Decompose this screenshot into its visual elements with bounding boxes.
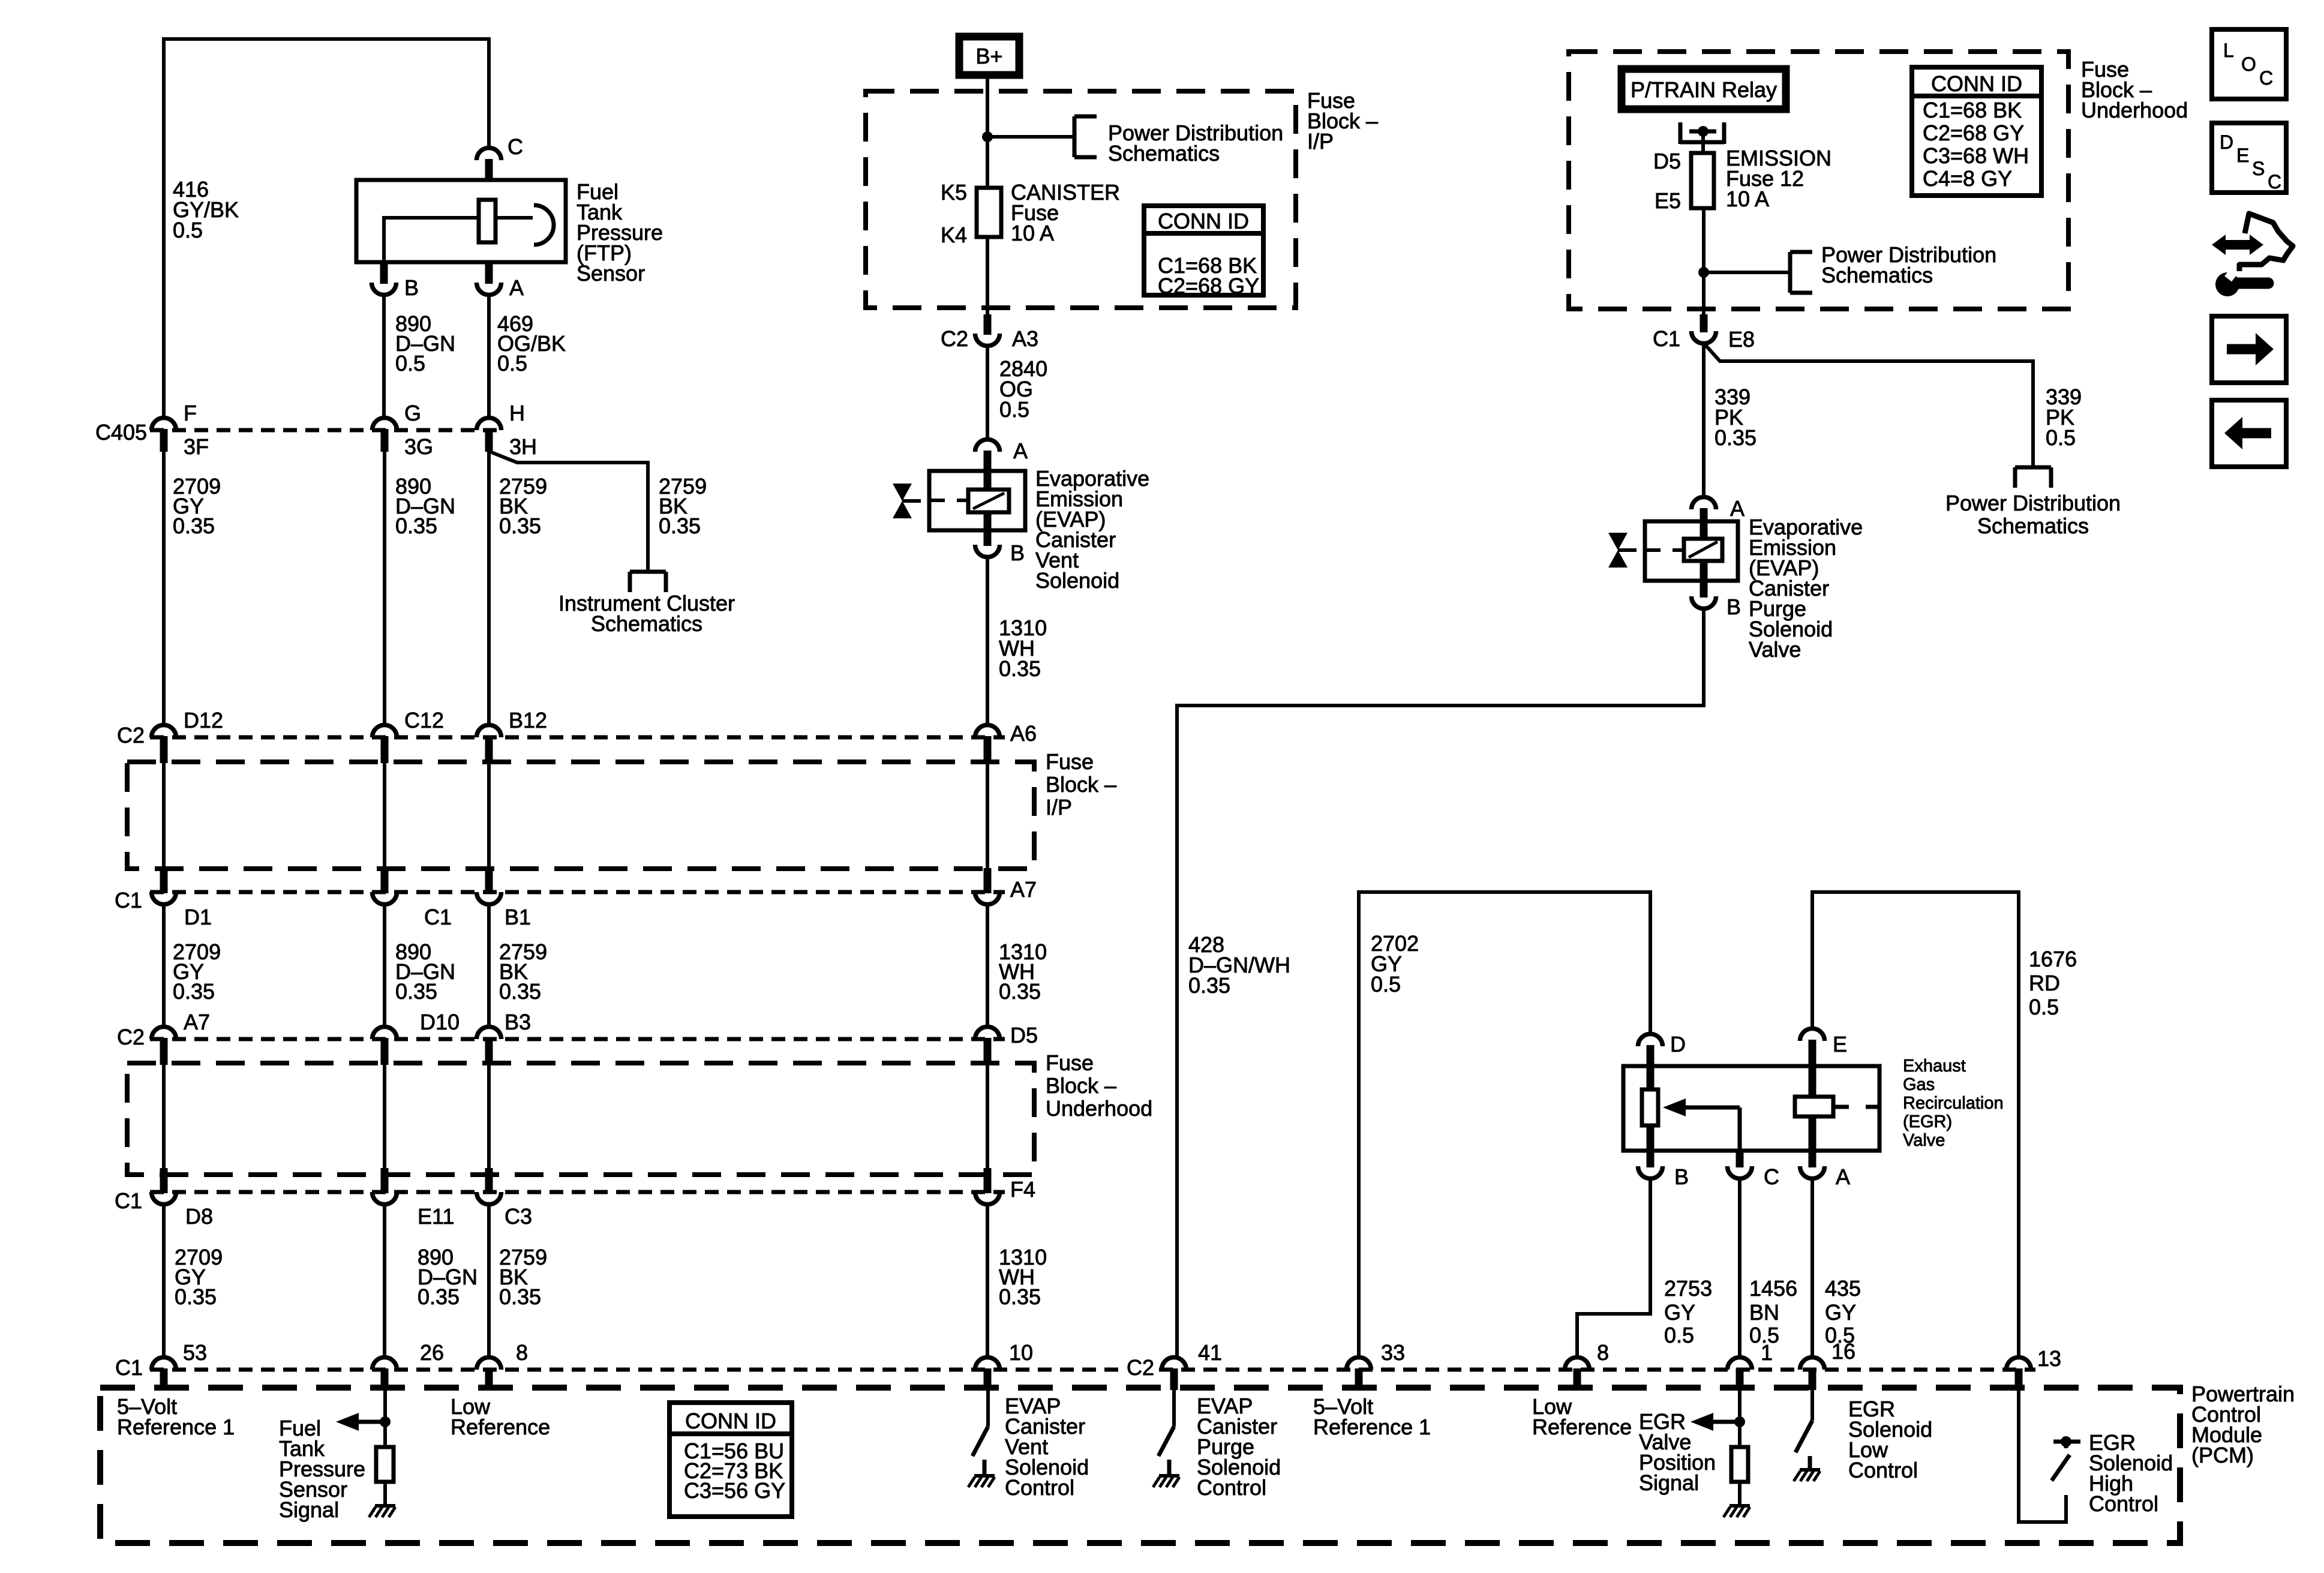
- ground EGR low driver: [1800, 1468, 1820, 1472]
- svg-text:435: 435: [1825, 1276, 1861, 1301]
- EVAP vent driver switch: [972, 1427, 988, 1456]
- connector PCM pin 13: [2007, 1358, 2031, 1370]
- svg-text:3H: 3H: [509, 434, 537, 459]
- connector C1/E11: [373, 1192, 397, 1205]
- connector C405 pin G: [373, 418, 397, 431]
- svg-text:F4: F4: [1010, 1177, 1035, 1202]
- svg-text:F: F: [184, 401, 197, 425]
- svg-text:Schematics: Schematics: [591, 611, 702, 636]
- connector pin D EGR: [1638, 1034, 1663, 1046]
- wire 2702 GY loop: [1359, 892, 1650, 1356]
- icon wrench tool: [2215, 272, 2239, 296]
- connector PCM pin 41: [1162, 1358, 1187, 1370]
- connector C2/D12: [152, 725, 176, 738]
- icon wrench part outline: [2239, 214, 2293, 271]
- svg-text:0.35: 0.35: [395, 514, 437, 538]
- svg-text:0.5: 0.5: [173, 218, 203, 242]
- svg-text:0.35: 0.35: [175, 1284, 217, 1309]
- connector C1/C1: [373, 892, 397, 905]
- svg-text:0.5: 0.5: [999, 397, 1029, 422]
- connector pin A EGR: [1800, 1166, 1825, 1178]
- connector pin A purge: [1692, 497, 1716, 509]
- EGR valve box: [1623, 1066, 1879, 1151]
- svg-text:0.5: 0.5: [1371, 972, 1401, 996]
- ground EGR position: [1730, 1504, 1750, 1508]
- connector PCM pin 8R: [1565, 1358, 1590, 1370]
- svg-text:C1: C1: [115, 888, 142, 912]
- vent solenoid coil: [968, 490, 1009, 512]
- resistor EGR position: [1731, 1447, 1748, 1482]
- EGR high driver switch blade: [2052, 1455, 2070, 1481]
- connector pin A FTP: [477, 283, 502, 295]
- svg-text:Schematics: Schematics: [1821, 263, 1933, 287]
- wire branch to power distribution: [987, 135, 1074, 139]
- EGR position arrow: [1691, 1413, 1713, 1431]
- wire col3 2759: [487, 451, 491, 725]
- connector C2/A3: [975, 334, 1000, 346]
- svg-text:C4=8 GY: C4=8 GY: [1923, 166, 2012, 191]
- svg-text:10 A: 10 A: [1011, 221, 1054, 245]
- svg-text:E8: E8: [1728, 327, 1755, 352]
- wire vent B down: [986, 557, 989, 725]
- connector row dashed line y1732: [150, 1037, 1005, 1041]
- svg-text:C1=68 BK: C1=68 BK: [1923, 98, 2022, 122]
- connector C2/A6: [975, 725, 1000, 738]
- wire A3 to vent A: [986, 346, 989, 440]
- svg-text:3G: 3G: [404, 434, 433, 459]
- P/TRAIN relay box: [1622, 69, 1786, 109]
- EGR wiper arrow: [1663, 1098, 1686, 1116]
- wire col4 band2: [986, 905, 989, 1026]
- svg-text:0.5: 0.5: [1664, 1323, 1694, 1347]
- svg-text:E11: E11: [418, 1204, 454, 1229]
- fuel tank pressure sensor FTP box: [356, 180, 566, 262]
- svg-text:D5: D5: [1010, 1023, 1038, 1047]
- connector row dashed line y1487: [150, 890, 1005, 894]
- off-page bracket instrument cluster: [630, 570, 666, 574]
- conn id table underhood: [1912, 67, 2041, 196]
- svg-text:0.35: 0.35: [1188, 973, 1230, 998]
- resistor FTP element: [479, 200, 496, 242]
- EGR high driver contact: [2061, 1436, 2071, 1447]
- svg-text:10: 10: [1009, 1340, 1033, 1365]
- connector PCM pin 1: [1728, 1358, 1752, 1370]
- EGR solenoid coil: [1795, 1097, 1833, 1116]
- connector C1/D1: [152, 892, 176, 905]
- wire EGR resistor to ground: [1738, 1482, 1742, 1506]
- wire branch power dist right: [1704, 271, 1790, 274]
- svg-text:E: E: [1833, 1032, 1847, 1056]
- svg-text:0.35: 0.35: [999, 656, 1041, 681]
- svg-text:0.35: 0.35: [173, 979, 215, 1004]
- icon left arrow box: [2212, 400, 2286, 467]
- vent solenoid dashed actuator line: [929, 499, 968, 502]
- wire col4 band3: [986, 1205, 989, 1356]
- connector PCM pin 8L: [477, 1358, 502, 1370]
- svg-text:D12: D12: [184, 708, 223, 733]
- wire EGR low driver: [1810, 1389, 1814, 1421]
- svg-text:0.35: 0.35: [418, 1284, 460, 1309]
- EVAP vent driver ground stub: [983, 1460, 987, 1476]
- svg-text:Block –: Block –: [1046, 772, 1116, 797]
- EGR position sensor potentiometer: [1642, 1089, 1658, 1125]
- connector PCM pin 26: [373, 1358, 397, 1370]
- svg-text:0.35: 0.35: [999, 1284, 1041, 1309]
- connector C1/C3: [477, 1192, 502, 1205]
- wire top-left loop: [164, 39, 489, 418]
- svg-text:C: C: [1764, 1164, 1779, 1189]
- svg-text:Sensor: Sensor: [577, 261, 645, 286]
- svg-text:D: D: [1670, 1032, 1686, 1056]
- wire col4 through UH block: [986, 1065, 989, 1169]
- svg-text:Signal: Signal: [279, 1497, 339, 1522]
- svg-text:Fuse: Fuse: [1046, 749, 1094, 774]
- icon right arrow box: [2212, 316, 2286, 383]
- svg-text:A: A: [1730, 496, 1744, 521]
- icon DESC box: [2212, 123, 2286, 193]
- wire col2 band2: [383, 905, 386, 1026]
- connector pin E EGR: [1800, 1028, 1825, 1041]
- wire 1676 RD loop: [1812, 892, 2019, 1356]
- svg-text:8: 8: [516, 1340, 528, 1365]
- svg-text:Fuse: Fuse: [1046, 1050, 1094, 1075]
- connector C2/B3: [477, 1026, 502, 1039]
- svg-text:(PCM): (PCM): [2191, 1443, 2254, 1467]
- off-page bracket power distribution IP: [1073, 116, 1077, 157]
- svg-text:B12: B12: [509, 708, 547, 733]
- svg-text:Reference 1: Reference 1: [117, 1415, 235, 1439]
- connector C1/F4: [975, 1192, 1000, 1205]
- svg-text:C: C: [508, 134, 523, 159]
- svg-text:H: H: [509, 401, 525, 425]
- svg-text:0.35: 0.35: [999, 979, 1041, 1004]
- wire col3 through UH block: [487, 1065, 491, 1169]
- svg-text:1676: 1676: [2029, 947, 2077, 971]
- svg-text:3F: 3F: [184, 434, 209, 459]
- svg-text:0.35: 0.35: [499, 979, 541, 1004]
- wire FTP internal right: [496, 216, 533, 220]
- wire col2 890: [383, 451, 386, 725]
- wire EVAP vent driver: [986, 1389, 990, 1427]
- svg-text:0.35: 0.35: [499, 514, 541, 538]
- ground EVAP purge driver: [1159, 1474, 1179, 1478]
- junction dot FTP signal: [380, 1416, 391, 1427]
- wire resistor to ground: [383, 1482, 387, 1506]
- vent solenoid valve bowtie: [893, 484, 912, 501]
- svg-text:Gas: Gas: [1903, 1075, 1935, 1094]
- svg-text:C12: C12: [404, 708, 444, 733]
- connector row dashed line y1987: [150, 1190, 1005, 1194]
- connector C1/B1: [477, 892, 502, 905]
- wire B+ down: [986, 75, 989, 190]
- svg-text:Reference: Reference: [1532, 1415, 1632, 1439]
- svg-text:Underhood: Underhood: [1046, 1096, 1152, 1121]
- wire pin A down: [487, 295, 491, 418]
- svg-text:GY: GY: [1825, 1300, 1856, 1325]
- svg-text:CONN ID: CONN ID: [685, 1409, 776, 1433]
- svg-text:0.5: 0.5: [2029, 995, 2059, 1019]
- svg-text:C: C: [2259, 67, 2273, 89]
- connector C2/D10: [373, 1026, 397, 1039]
- off-page bracket power distribution right: [2015, 466, 2051, 470]
- wire col1 2709: [162, 451, 166, 725]
- connector row dashed line y1229: [150, 736, 1005, 740]
- connector pin B vent: [975, 545, 1000, 557]
- svg-text:I/P: I/P: [1307, 129, 1334, 154]
- svg-text:Signal: Signal: [1639, 1470, 1699, 1495]
- svg-text:D8: D8: [185, 1204, 213, 1229]
- purge solenoid coil: [1684, 539, 1722, 561]
- wire EGR C to pin1: [1738, 1178, 1742, 1356]
- connector pin B purge: [1692, 596, 1716, 609]
- svg-text:B: B: [404, 275, 419, 300]
- fuse block underhood mid dashed box: [127, 1063, 1034, 1175]
- svg-text:C2: C2: [117, 723, 145, 748]
- svg-text:33: 33: [1381, 1340, 1405, 1365]
- svg-text:A: A: [509, 275, 524, 300]
- svg-text:C1: C1: [424, 905, 452, 929]
- svg-text:Valve: Valve: [1903, 1131, 1945, 1150]
- svg-text:16: 16: [1831, 1339, 1855, 1364]
- svg-text:C3=56 GY: C3=56 GY: [684, 1478, 785, 1503]
- svg-text:Reference: Reference: [451, 1415, 550, 1439]
- FTP signal arrow: [336, 1413, 359, 1431]
- svg-text:C2: C2: [117, 1025, 145, 1049]
- wire col3 through IP block: [487, 763, 491, 869]
- wire col2 through IP block: [383, 763, 386, 869]
- wire col4 through IP block: [986, 763, 989, 869]
- svg-text:E: E: [2236, 145, 2249, 166]
- svg-text:O: O: [2241, 53, 2256, 75]
- svg-text:0.35: 0.35: [395, 979, 437, 1004]
- EVAP vent solenoid box: [929, 471, 1025, 530]
- svg-text:Power Distribution: Power Distribution: [1945, 491, 2121, 515]
- svg-text:0.35: 0.35: [1715, 425, 1756, 450]
- wire purge B to pin 41: [1177, 608, 1704, 1356]
- ground FTP signal: [375, 1504, 395, 1508]
- wire col3 band2: [487, 905, 491, 1026]
- svg-text:0.5: 0.5: [2046, 425, 2076, 450]
- svg-text:K5: K5: [941, 180, 967, 205]
- connector C405 pin H: [477, 418, 502, 431]
- wire E8 fork diagonal: [1704, 343, 2033, 467]
- svg-text:Reference 1: Reference 1: [1313, 1415, 1431, 1439]
- svg-text:L: L: [2223, 40, 2234, 61]
- fuse EMISSION D5/E5: [1691, 153, 1714, 208]
- wire col1 band2: [162, 905, 166, 1026]
- svg-text:P/TRAIN Relay: P/TRAIN Relay: [1631, 77, 1777, 102]
- fuse block IP top dashed box: [866, 91, 1296, 308]
- conn id table PCM: [669, 1403, 792, 1517]
- B+ power box: [959, 37, 1019, 75]
- fuse block IP mid dashed box: [127, 762, 1034, 869]
- wire col2 band3: [383, 1205, 386, 1356]
- connector C2/C12: [373, 725, 397, 738]
- svg-text:Recirculation: Recirculation: [1903, 1094, 2004, 1113]
- connector C1/A7r: [975, 892, 1000, 905]
- svg-text:D5: D5: [1653, 149, 1681, 173]
- svg-text:Control: Control: [2089, 1491, 2158, 1516]
- fuse CANISTER K5/K4: [977, 188, 1001, 237]
- svg-text:BN: BN: [1749, 1300, 1779, 1325]
- connector C2/D5: [975, 1026, 1000, 1039]
- svg-text:A3: A3: [1012, 326, 1038, 351]
- svg-text:0.35: 0.35: [499, 1284, 541, 1309]
- wire pin B down: [382, 295, 386, 418]
- wire col1 band3: [162, 1205, 166, 1356]
- resistor FTP pullup: [376, 1447, 394, 1482]
- wire EGR B jog to pin8: [1577, 1178, 1650, 1356]
- svg-text:RD: RD: [2029, 971, 2060, 995]
- svg-text:2753: 2753: [1664, 1276, 1712, 1301]
- wire col3 band3: [487, 1205, 491, 1356]
- svg-text:Block –: Block –: [1046, 1073, 1116, 1098]
- svg-text:A7: A7: [184, 1010, 210, 1034]
- junction dot B+ branch: [982, 131, 993, 142]
- svg-text:A6: A6: [1010, 721, 1037, 746]
- PCM dashed box: [100, 1388, 2180, 1543]
- EVAP purge solenoid box: [1645, 521, 1738, 581]
- connector PCM pin 33: [1347, 1358, 1371, 1370]
- svg-text:B: B: [1674, 1164, 1689, 1189]
- svg-text:Exhaust: Exhaust: [1903, 1056, 1966, 1076]
- svg-text:Schematics: Schematics: [1108, 141, 1220, 166]
- svg-text:C2=68 GY: C2=68 GY: [1923, 121, 2024, 145]
- svg-text:Control: Control: [1197, 1475, 1266, 1500]
- wire EGR A to pin16: [1810, 1178, 1814, 1356]
- svg-text:B+: B+: [975, 44, 1002, 68]
- conn id table IP: [1144, 206, 1263, 295]
- svg-text:A7: A7: [1010, 877, 1037, 902]
- FTP wiper arc: [534, 205, 554, 245]
- svg-text:CONN ID: CONN ID: [1158, 209, 1249, 233]
- off-page bracket power distribution UH: [1788, 252, 1792, 293]
- svg-text:C2: C2: [941, 326, 968, 351]
- svg-text:0.35: 0.35: [659, 514, 701, 538]
- svg-text:C3=68 WH: C3=68 WH: [1923, 143, 2029, 168]
- svg-text:C1: C1: [115, 1355, 143, 1380]
- wire col1 through IP block: [162, 763, 166, 869]
- svg-text:C2=68 GY: C2=68 GY: [1158, 274, 1259, 298]
- wire FTP signal: [383, 1389, 387, 1447]
- svg-text:C1: C1: [1653, 326, 1680, 351]
- svg-text:13: 13: [2037, 1346, 2061, 1371]
- svg-text:D10: D10: [420, 1010, 460, 1034]
- wire col2 through UH block: [383, 1065, 386, 1169]
- wire EVAP purge driver: [1172, 1389, 1176, 1427]
- svg-text:Valve: Valve: [1749, 637, 1801, 662]
- svg-text:B: B: [1010, 541, 1025, 565]
- wire EGR position signal: [1738, 1389, 1742, 1447]
- svg-text:C1: C1: [115, 1188, 142, 1213]
- svg-text:D: D: [2220, 131, 2233, 153]
- svg-text:I/P: I/P: [1046, 795, 1072, 819]
- svg-text:53: 53: [183, 1340, 207, 1365]
- svg-text:1456: 1456: [1749, 1276, 1797, 1301]
- svg-text:CONN ID: CONN ID: [1931, 71, 2022, 96]
- connector PCM pin 10: [975, 1358, 1000, 1370]
- EVAP purge driver ground stub: [1167, 1460, 1172, 1476]
- svg-text:C: C: [2268, 171, 2281, 193]
- PCM pin row dashed line: [150, 1368, 1123, 1372]
- connector C1/E8: [1692, 331, 1716, 344]
- EGR low driver ground stub: [1808, 1456, 1812, 1470]
- connector pin B EGR: [1638, 1166, 1663, 1178]
- wire E8 down to purge A: [1702, 343, 1706, 497]
- svg-text:C405: C405: [95, 420, 147, 445]
- purge solenoid valve bowtie: [1608, 533, 1628, 550]
- svg-text:E5: E5: [1655, 188, 1681, 213]
- svg-text:K4: K4: [941, 223, 967, 247]
- wire relay to fuse D5: [1701, 131, 1705, 155]
- connector row C405 dashed line: [150, 428, 504, 433]
- wire 3H branch diagonal: [490, 452, 648, 570]
- fuse block underhood top dashed box: [1569, 52, 2068, 309]
- wire fuse to E8: [1702, 208, 1706, 324]
- connector pin C EGR: [1728, 1166, 1752, 1178]
- svg-text:B3: B3: [505, 1010, 531, 1034]
- svg-text:A: A: [1013, 439, 1028, 463]
- EVAP purge driver switch: [1158, 1427, 1174, 1456]
- svg-text:D1: D1: [184, 905, 212, 929]
- svg-text:8: 8: [1597, 1340, 1609, 1365]
- svg-text:0.5: 0.5: [395, 351, 425, 376]
- connector C405 pin F: [152, 418, 176, 431]
- connector pin C FTP: [477, 148, 502, 161]
- svg-text:Underhood: Underhood: [2081, 98, 2188, 122]
- svg-text:G: G: [404, 401, 421, 425]
- svg-text:S: S: [2252, 158, 2265, 179]
- svg-text:B: B: [1727, 595, 1741, 619]
- connector pin B FTP: [372, 283, 397, 295]
- svg-text:Control: Control: [1005, 1475, 1074, 1500]
- svg-text:1: 1: [1761, 1340, 1773, 1365]
- wire fuse to A3: [986, 237, 989, 324]
- svg-text:41: 41: [1198, 1340, 1222, 1365]
- wire FTP internal left: [384, 216, 479, 220]
- ground EVAP vent driver: [974, 1474, 995, 1478]
- wire col1 through UH block: [162, 1065, 166, 1169]
- icon LOC box: [2212, 29, 2286, 99]
- svg-text:(EGR): (EGR): [1903, 1112, 1952, 1131]
- wire EGR high driver: [2019, 1389, 2066, 1522]
- junction dot power dist branch: [1698, 267, 1709, 278]
- purge solenoid dashed actuator line: [1645, 548, 1684, 552]
- svg-text:Schematics: Schematics: [1977, 514, 2089, 538]
- svg-text:26: 26: [420, 1340, 444, 1365]
- svg-text:0.5: 0.5: [497, 351, 527, 376]
- connector C2/A7: [152, 1026, 176, 1039]
- svg-text:Control: Control: [1848, 1458, 1918, 1482]
- connector pin A vent: [975, 439, 1000, 452]
- connector C2/B12: [477, 725, 502, 738]
- svg-text:Solenoid: Solenoid: [1035, 568, 1119, 593]
- connector PCM pin 53: [152, 1358, 176, 1370]
- relay pigtail: [1679, 122, 1683, 144]
- connector PCM pin 16: [1800, 1358, 1825, 1370]
- svg-text:C2: C2: [1127, 1355, 1154, 1380]
- svg-text:A: A: [1836, 1164, 1850, 1189]
- svg-text:C3: C3: [505, 1204, 532, 1229]
- svg-text:GY: GY: [1664, 1300, 1695, 1325]
- svg-text:B1: B1: [505, 905, 531, 929]
- svg-text:0.35: 0.35: [173, 514, 215, 538]
- svg-text:10 A: 10 A: [1726, 187, 1769, 211]
- icon wrench double arrow: [2212, 235, 2226, 255]
- EGR coil output lines: [1833, 1105, 1849, 1109]
- junction dot EGR position: [1734, 1416, 1745, 1427]
- connector C1/D8: [152, 1192, 176, 1205]
